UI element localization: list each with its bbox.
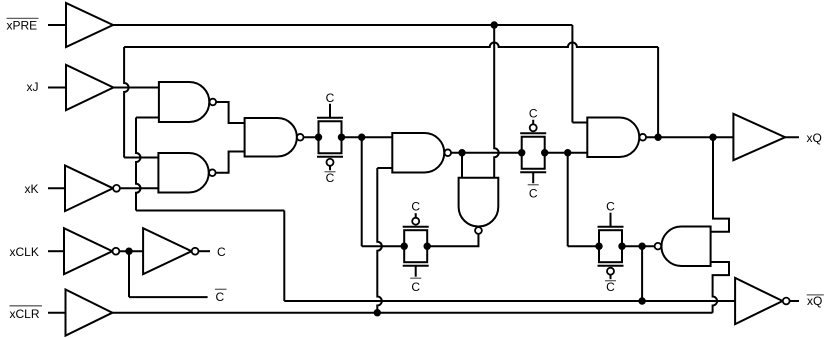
svg-text:xCLK: xCLK xyxy=(10,245,39,259)
node D junction dot (TG3/G5 node) xyxy=(564,149,571,156)
buffer U6 xCLR xyxy=(66,290,113,336)
svg-text:C: C xyxy=(606,280,615,294)
wire node E down to Qbar net xyxy=(641,246,643,301)
wire TG3 output to NAND G5 input 2 xyxy=(545,152,588,154)
label xQ xyxy=(807,131,822,145)
NAND G4 (master latch) xyxy=(392,133,451,173)
node F junction dot (Qbar joins TG4/G6 node drop) xyxy=(638,297,645,304)
wire node Q2 down with hook into G6 input 1 xyxy=(711,137,729,232)
wire from node P down to down-NAND G7 input (hops row2 wire) xyxy=(494,25,499,178)
wire xPRE input stub xyxy=(48,24,66,26)
inverter U3 xK xyxy=(65,166,120,212)
wire xK inverter output to NAND G2 input 2 xyxy=(120,187,158,189)
wire xJ buffer output to NAND G1 input 1 xyxy=(113,87,158,89)
wire Qbar net: from G1 input-2 run across to xQbar buffer xyxy=(284,300,735,302)
NAND G7 (down-pointing, master feedback) xyxy=(459,178,499,234)
wire TG1 output to NAND G4 input 1 xyxy=(342,136,393,138)
wire xJ input stub xyxy=(48,87,66,89)
wire G3 output to TG1 xyxy=(304,136,319,138)
label Cbar of TG1 xyxy=(325,171,336,185)
svg-text:xQ: xQ xyxy=(807,294,822,308)
wire xCLK inverter output to inverter U5 xyxy=(119,250,143,252)
node E junction dot (G6 output node) xyxy=(638,243,645,250)
wire xCLR net: buffer output right to G6 lower input hook xyxy=(112,262,729,313)
wire xPRE output to node P (runs right, corner down at x=572) xyxy=(113,25,587,123)
transmission gate TG2 xyxy=(401,213,431,277)
wire node A down then right to TG2 input (hopped by CLR tap) xyxy=(362,137,405,246)
label xK xyxy=(25,182,39,196)
node A junction dot (TG1/G4 node) xyxy=(358,134,365,141)
svg-text:C: C xyxy=(217,245,226,259)
wire node B down to down-NAND G7 input 1 xyxy=(461,153,463,178)
label xJ xyxy=(27,80,39,94)
label xCLK xyxy=(10,245,39,259)
wire xCLR input stub xyxy=(48,312,66,314)
wire xCLK input stub xyxy=(48,250,64,252)
svg-text:C: C xyxy=(411,200,420,214)
NAND G3 xyxy=(245,118,304,157)
node Q2 junction dot (drop to G6 input hook) xyxy=(709,134,716,141)
wire from node CLR up to NAND G4 input 2 (hops rows at 246 and 301) xyxy=(377,168,392,313)
wire G5 output right to xQ buffer xyxy=(646,136,733,138)
buffer U2 xJ xyxy=(66,65,113,110)
label C of TG3 xyxy=(529,106,538,120)
svg-text:xPRE: xPRE xyxy=(7,18,38,32)
wire node Q up to feedback wire y=47 xyxy=(657,47,659,137)
wire G1 output to G3 input 1 xyxy=(216,102,244,123)
wire NAND G1 input 2 from Qbar net (left vertical run) xyxy=(136,118,284,302)
svg-text:C: C xyxy=(411,280,420,294)
NAND G2 (K steering) xyxy=(158,153,215,193)
transmission gate TG3 xyxy=(518,120,548,184)
label C (clock true) xyxy=(217,245,226,259)
svg-text:C: C xyxy=(326,91,335,105)
wire G2 output to G3 input 2 xyxy=(216,152,245,173)
node P junction dot on xPRE wire xyxy=(491,21,498,28)
wire G7 output down then left to TG2 output node xyxy=(428,234,479,246)
wire G4 output row to TG3 input (hopped-over by xPRE drop) xyxy=(451,152,522,154)
transmission gate TG4 xyxy=(595,213,625,280)
buffer U7 xQ xyxy=(733,114,785,160)
label C of TG1 xyxy=(326,91,335,105)
svg-text:C: C xyxy=(606,200,615,214)
NAND G6 (left-pointing, slave feedback) xyxy=(655,227,711,267)
svg-text:xK: xK xyxy=(25,182,39,196)
buffer U1 xPRE xyxy=(66,3,113,47)
wire xK input stub xyxy=(48,187,65,189)
svg-text:C: C xyxy=(529,106,538,120)
label xPRE (active-low preset input) xyxy=(7,18,39,32)
NAND G1 (J steering) xyxy=(159,82,216,122)
inverter U8 xQbar xyxy=(735,278,790,324)
svg-text:xCLR: xCLR xyxy=(10,307,40,321)
inverter U4 xCLK xyxy=(64,228,119,274)
wire C net stub to label xyxy=(199,250,210,252)
svg-text:C: C xyxy=(529,187,538,201)
label xQbar xyxy=(807,294,824,308)
label C of TG4 xyxy=(606,200,615,214)
node CLR junction dot (taps G4 lower input) xyxy=(374,309,381,316)
label xCLR (active-low clear input) xyxy=(10,306,43,321)
svg-text:xQ: xQ xyxy=(807,131,822,145)
svg-text:C: C xyxy=(326,171,335,185)
wire TG4 output to G6 output node xyxy=(622,245,654,247)
wire Cbar net: down from node CLKN then right xyxy=(129,251,208,297)
inverter U5 (makes C) xyxy=(143,228,198,274)
wire xQbar output stub xyxy=(790,300,799,302)
wire node D down then right to TG4 input xyxy=(568,153,599,246)
NAND G5 (slave latch, drives xQ) xyxy=(587,118,646,158)
node B junction dot (G4 output) xyxy=(458,149,465,156)
svg-text:C: C xyxy=(216,290,225,304)
node Q junction dot (feedback up) xyxy=(654,134,661,141)
wire feedback net Q-internal (y=47) from G5 output up and across to G2 input 1 xyxy=(124,43,658,48)
wire xQ output stub xyxy=(785,136,799,138)
label Cbar of TG3 xyxy=(528,185,539,201)
transmission gate TG1 xyxy=(315,104,345,171)
svg-text:xJ: xJ xyxy=(27,80,39,94)
label Cbar of TG2 xyxy=(410,278,421,294)
label C of TG2 xyxy=(411,200,420,214)
wire left branch down from y=47 to NAND G2 input 1 (hops xJ wire) xyxy=(124,47,158,158)
label Cbar of TG4 xyxy=(605,280,616,294)
label Cbar (clock complement) xyxy=(215,289,227,304)
node CLKN junction dot xyxy=(125,248,132,255)
